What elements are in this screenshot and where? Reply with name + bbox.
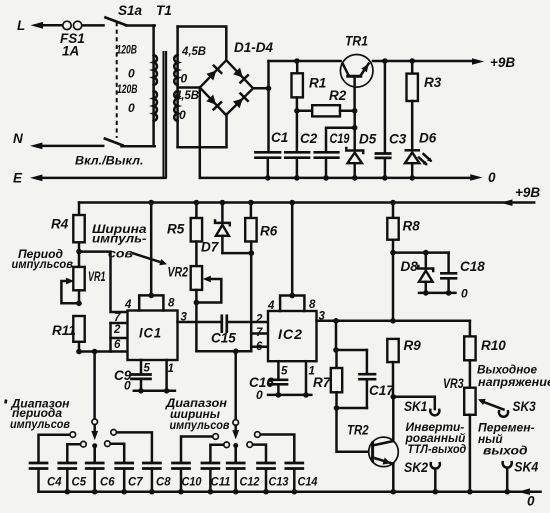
svg-text:N: N	[13, 131, 23, 146]
svg-text:6: 6	[256, 341, 263, 353]
IC2 pins 4,8 supply bracket	[267, 203, 316, 313]
svg-text:0: 0	[179, 108, 186, 122]
LED D6	[405, 131, 437, 181]
socket SK2	[404, 460, 440, 495]
zener diode D7	[201, 203, 230, 255]
svg-text:0: 0	[128, 101, 135, 115]
capacitor C9	[114, 360, 175, 394]
svg-text:7: 7	[114, 312, 121, 324]
resistor R2	[297, 88, 358, 116]
transistor TR2	[347, 423, 398, 467]
fuse FS1	[60, 21, 104, 58]
node raw + rail	[269, 58, 341, 64]
potentiometer VR1	[61, 252, 105, 307]
svg-text:импульсов: импульсов	[10, 417, 70, 431]
node 0 stub under D8/C18	[419, 287, 468, 301]
svg-text:С4: С4	[47, 475, 62, 489]
capacitor C7	[105, 441, 144, 495]
IC1 (555 timer)	[128, 311, 178, 361]
wire secondary bottom to bridge	[178, 115, 227, 147]
resistor R5	[167, 203, 202, 267]
wire VR2 bottom to IC2 pins 7,6 and cap selector	[196, 334, 268, 355]
svg-text:R8: R8	[403, 219, 421, 234]
potentiometer VR3	[443, 376, 476, 495]
bridge rectifier D1-D4 diamond	[200, 40, 274, 115]
capacitor C10	[173, 434, 219, 495]
svg-text:+9В: +9В	[515, 185, 540, 200]
svg-text:D8: D8	[401, 259, 419, 274]
label Диапазон периода импульсов	[4, 397, 70, 432]
svg-text:TR1: TR1	[345, 33, 368, 48]
capacitor C19	[315, 125, 358, 181]
node E terminal	[13, 171, 166, 186]
resistor R4	[51, 203, 85, 255]
label Выходное напряжение	[477, 362, 550, 389]
svg-text:R9: R9	[404, 338, 422, 353]
label Ширина импульсов with arrow	[92, 222, 167, 265]
wire R8 junction to D8/C18	[393, 250, 449, 256]
resistor R1	[292, 61, 327, 114]
T1 core	[164, 51, 167, 178]
svg-text:0: 0	[256, 388, 263, 402]
node L terminal	[17, 18, 63, 33]
diode D2 (top-right arm)	[233, 68, 248, 83]
svg-text:4: 4	[267, 300, 275, 312]
svg-text:IC2: IC2	[278, 326, 303, 342]
svg-text:VR2: VR2	[168, 265, 189, 280]
svg-text:С11: С11	[211, 475, 231, 489]
svg-text:5: 5	[144, 363, 151, 375]
svg-text:R11: R11	[52, 323, 76, 338]
svg-text:E: E	[13, 171, 23, 186]
svg-text:SK2: SK2	[404, 460, 428, 475]
svg-text:R3: R3	[424, 75, 442, 90]
T1 secondary labels	[174, 44, 206, 122]
switch S1a upper blade	[106, 3, 155, 26]
svg-text:TR2: TR2	[347, 423, 369, 438]
svg-text:VR3: VR3	[443, 376, 464, 391]
T1 primary winding labels	[117, 43, 138, 116]
wire D7 anode to R6 bottom	[222, 250, 254, 256]
IC2 pin labels 2,7,6	[255, 314, 263, 354]
svg-text:C2: C2	[300, 131, 318, 146]
svg-text:С7: С7	[128, 475, 144, 489]
resistor R6	[245, 203, 278, 352]
capacitor C4	[30, 432, 76, 492]
wire TR1 base to D5	[353, 111, 356, 150]
svg-text:0: 0	[181, 72, 188, 86]
svg-text:D7: D7	[201, 240, 220, 255]
svg-text:R6: R6	[260, 224, 278, 239]
svg-text:0: 0	[124, 379, 131, 393]
selector switch 1 wiper	[91, 352, 98, 463]
switch S1b lower blade	[105, 139, 155, 147]
wire bridge minus to 0 rail	[199, 88, 202, 178]
capacitor C12	[227, 446, 260, 495]
svg-text:R4: R4	[51, 217, 69, 232]
wire IC2 pin3 to R7/C17	[333, 321, 367, 353]
svg-text:SK3: SK3	[513, 399, 537, 414]
switch mechanical link (dashed)	[116, 22, 118, 138]
diode D4 (bottom-right arm)	[233, 93, 248, 108]
wire R7 to TR2 base	[337, 408, 372, 452]
capacitor C2	[285, 111, 317, 181]
capacitor C6	[86, 446, 115, 495]
resistor R8	[387, 203, 420, 321]
wire secondary centre tap to bridge left	[178, 86, 200, 89]
svg-text:4,5В: 4,5В	[181, 44, 206, 58]
IC2 pin 3 output	[317, 311, 339, 324]
svg-text:R7: R7	[313, 375, 332, 390]
capacitor C8	[111, 430, 171, 495]
svg-text:С8: С8	[156, 475, 171, 489]
svg-text:R10: R10	[481, 338, 506, 353]
resistor R7	[313, 350, 342, 411]
IC1 pin 3 output	[178, 312, 222, 324]
label Период импульсов	[12, 247, 74, 271]
IC2 (555 timer)	[268, 311, 317, 361]
socket SK3	[499, 399, 536, 417]
svg-text:С14: С14	[298, 475, 318, 489]
svg-text:импуль-: импуль-	[92, 232, 147, 246]
diode D3 (bottom-left arm)	[206, 95, 221, 110]
socket SK1	[393, 397, 439, 416]
svg-text:1A: 1A	[62, 44, 79, 59]
svg-text:6: 6	[114, 339, 121, 351]
svg-text:2: 2	[113, 324, 121, 336]
svg-text:напряжение: напряжение	[478, 375, 550, 389]
node +9V output rail	[373, 55, 515, 70]
socket SK4	[503, 460, 539, 495]
svg-text:R2: R2	[329, 88, 347, 103]
capacitor C3	[376, 61, 407, 181]
svg-text:С12: С12	[240, 475, 260, 489]
wire secondary top to bridge	[178, 27, 227, 61]
svg-text:С10: С10	[182, 475, 202, 489]
svg-text:S1a: S1a	[118, 3, 143, 18]
capacitor C15	[211, 316, 268, 346]
T1 secondary winding	[174, 27, 177, 148]
svg-text:C3: C3	[389, 132, 407, 147]
svg-text:С13: С13	[269, 475, 289, 489]
svg-text:IC1: IC1	[139, 325, 162, 341]
svg-text:120В: 120В	[117, 43, 138, 57]
node 0 rail of supply	[200, 170, 496, 185]
svg-text:выход: выход	[483, 444, 528, 458]
svg-text:D6: D6	[419, 131, 437, 146]
node N terminal	[13, 131, 103, 149]
resistor R10	[464, 321, 506, 388]
svg-text:SK1: SK1	[404, 399, 427, 414]
capacitor C11	[202, 442, 231, 495]
svg-text:C19: C19	[330, 131, 350, 146]
transistor TR1	[340, 33, 373, 111]
svg-text:импульсов: импульсов	[12, 257, 74, 271]
svg-text:3: 3	[181, 312, 188, 324]
svg-text:SK4: SK4	[514, 460, 538, 475]
svg-text:8: 8	[168, 298, 175, 310]
capacitor C5	[59, 441, 87, 494]
node IC2 output line	[336, 318, 470, 324]
svg-text:0: 0	[461, 287, 468, 301]
svg-text:R5: R5	[167, 222, 185, 237]
capacitor C1	[256, 88, 289, 180]
label Диапазон ширины импульсов	[165, 396, 230, 432]
svg-text:VR1: VR1	[88, 269, 106, 284]
IC1 pins 4,8 supply bracket	[124, 203, 175, 312]
wire TR2 emitter to 0 rail	[391, 464, 397, 495]
potentiometer VR2	[168, 265, 222, 352]
svg-text:T1: T1	[156, 3, 172, 18]
svg-text:+9В: +9В	[490, 55, 515, 70]
svg-text:импульсов: импульсов	[170, 418, 230, 432]
node +9V rail (generator section)	[79, 185, 540, 206]
svg-text:L: L	[17, 18, 25, 33]
capacitor C18	[441, 253, 485, 293]
svg-text:8: 8	[309, 299, 316, 311]
svg-text:0: 0	[128, 67, 135, 81]
resistor R3	[407, 61, 442, 150]
wire R4/VR1 junction to IC1 pin 7	[79, 252, 128, 312]
resistor R9	[387, 338, 421, 397]
svg-text:120В: 120В	[117, 82, 138, 96]
capacitor C17	[337, 350, 396, 408]
svg-text:3: 3	[319, 311, 326, 323]
svg-text:4: 4	[124, 299, 132, 311]
wire TR2 collector / R9 bottom node	[391, 394, 397, 441]
diode D1 (top-left arm)	[206, 66, 221, 81]
label Инвертированный ТТЛ-выход	[405, 420, 467, 456]
capacitor C13	[247, 442, 289, 495]
svg-text:C1: C1	[271, 130, 288, 145]
capacitor C16	[249, 361, 315, 402]
svg-text:R1: R1	[309, 76, 326, 91]
svg-text:5: 5	[281, 366, 288, 378]
svg-text:ТТЛ-выход: ТТЛ-выход	[407, 442, 466, 456]
svg-text:С5: С5	[72, 475, 87, 489]
wire R11 to IC1 pins 2,6	[79, 323, 128, 354]
label Переменный выход	[478, 421, 535, 458]
svg-text:1: 1	[168, 363, 174, 375]
T1 primary conductor	[154, 26, 157, 147]
node 0 rail (bottom)	[39, 488, 541, 508]
IC1 pin labels 7,2,6	[113, 312, 121, 351]
svg-text:2: 2	[255, 314, 263, 326]
VR3 wiper to SK3	[478, 399, 504, 410]
svg-text:D1-D4: D1-D4	[234, 40, 274, 55]
svg-text:Вкл./Выкл.: Вкл./Выкл.	[75, 154, 144, 168]
svg-text:C18: C18	[460, 259, 485, 274]
resistor R11	[52, 316, 85, 354]
svg-text:сов: сов	[108, 247, 133, 261]
svg-text:С6: С6	[100, 475, 115, 489]
zener diode D5	[346, 132, 376, 181]
svg-text:C15: C15	[211, 331, 236, 346]
zener diode D8	[401, 253, 434, 293]
selector switch 2 wiper	[232, 351, 239, 462]
capacitor C14	[255, 432, 318, 495]
svg-text:0: 0	[527, 494, 535, 509]
svg-text:7: 7	[256, 327, 263, 339]
wire bridge plus output	[253, 61, 271, 91]
svg-text:D5: D5	[359, 132, 377, 147]
svg-text:4,5В: 4,5В	[174, 88, 199, 102]
svg-text:0: 0	[488, 170, 496, 185]
